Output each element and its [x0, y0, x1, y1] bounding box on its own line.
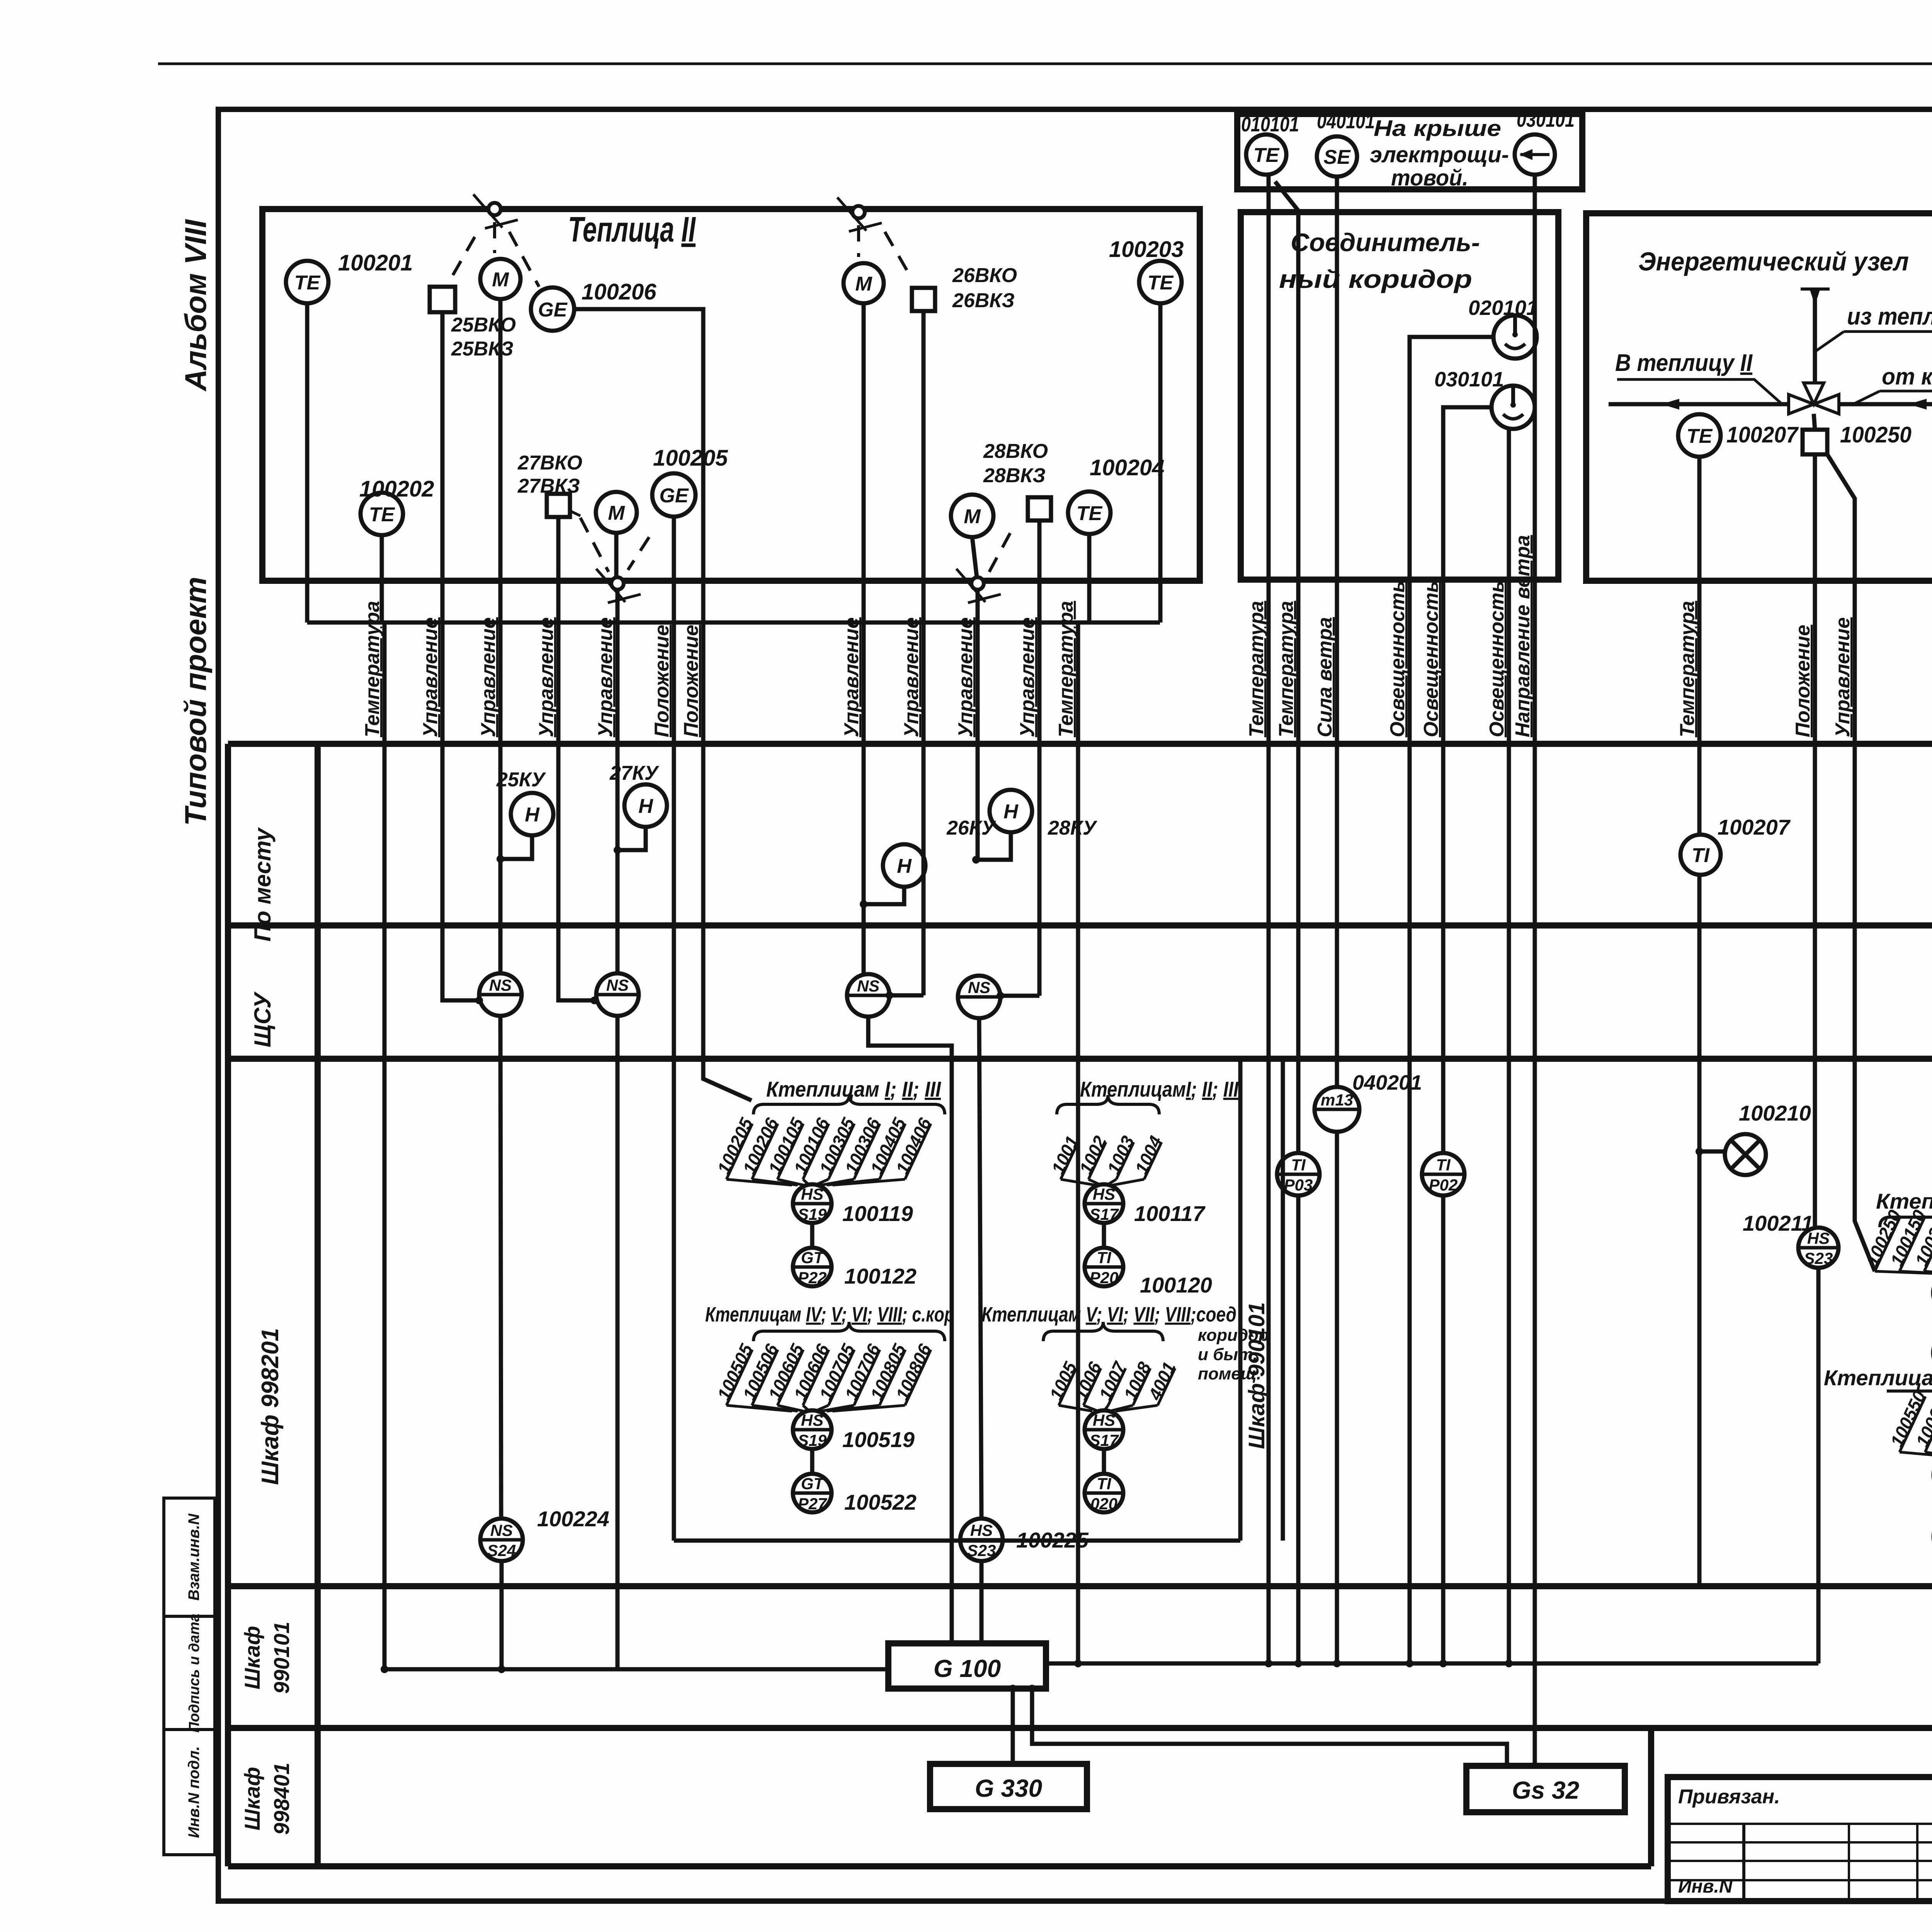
- svg-text:26КУ: 26КУ: [946, 817, 997, 839]
- svg-text:S24: S24: [487, 1541, 516, 1560]
- svg-text:Температура: Температура: [1676, 601, 1699, 737]
- svg-text:TE: TE: [294, 272, 321, 294]
- dash node to square26: [885, 232, 912, 279]
- svg-text:010101: 010101: [1241, 113, 1299, 136]
- svg-text:25КУ: 25КУ: [496, 769, 546, 791]
- svg-text:TI: TI: [1097, 1475, 1112, 1493]
- right collector from G100: [1046, 1662, 1818, 1666]
- svg-text:Соединитель-: Соединитель-: [1291, 228, 1480, 257]
- svg-text:Ктеплицам IV; V; VI; VIII; с.: Ктеплицам IV; V; VI; VIII; с.кор: [705, 1303, 954, 1326]
- wire TE100203 down: [1158, 303, 1163, 622]
- wire c5 upper: [616, 590, 620, 973]
- instrument HS S17 100517: [1085, 1410, 1123, 1449]
- svg-text:GT: GT: [801, 1475, 825, 1493]
- svg-text:Сила ветра: Сила ветра: [1314, 617, 1336, 737]
- svg-text:Освещенность: Освещенность: [1486, 581, 1508, 737]
- svg-text:Альбом VIII: Альбом VIII: [179, 219, 213, 392]
- box Привязан: [1668, 1777, 1932, 1901]
- svg-text:Теплица II: Теплица II: [568, 210, 696, 249]
- instrument TI P02: [1422, 1153, 1464, 1196]
- instrument TI 020: [1085, 1474, 1123, 1513]
- G100 to Gs32: [1032, 1689, 1507, 1766]
- svg-text:TE: TE: [1253, 144, 1280, 167]
- table left edge: [225, 744, 231, 1866]
- svg-text:030101: 030101: [1517, 108, 1575, 131]
- svg-text:998401: 998401: [269, 1763, 294, 1835]
- svg-text:коридор: коридор: [1198, 1326, 1269, 1345]
- svg-text:GE: GE: [538, 299, 567, 321]
- svg-text:Gs 32: Gs 32: [1512, 1776, 1579, 1804]
- svg-text:HS: HS: [1093, 1411, 1115, 1429]
- wire TE100204 down: [1087, 534, 1092, 622]
- svg-text:Положение: Положение: [651, 625, 673, 737]
- wire c20 lower: [1697, 875, 1702, 1586]
- NS3 out to G100: [868, 1017, 952, 1643]
- svg-text:030101: 030101: [1434, 368, 1504, 391]
- svg-text:NS: NS: [606, 976, 629, 994]
- instrument wind direction 030101: [1515, 134, 1555, 175]
- svg-text:G 100: G 100: [934, 1655, 1001, 1682]
- svg-text:25ВКЗ: 25ВКЗ: [451, 338, 514, 360]
- margin stamp table: [164, 1498, 215, 1855]
- fan to HS S17: [1048, 1133, 1166, 1185]
- svg-text:TI: TI: [1291, 1156, 1306, 1174]
- instrument TE 010101: [1246, 134, 1286, 175]
- brace right fan1: [1880, 1208, 1932, 1227]
- pipe top bar: [1801, 287, 1830, 291]
- left collector to G100: [384, 1667, 888, 1672]
- svg-text:040201: 040201: [1352, 1071, 1422, 1094]
- positioner square 100250: [1803, 430, 1827, 454]
- device box Gs32: [1466, 1766, 1625, 1812]
- wire c18 Освещенность: [1507, 429, 1511, 1663]
- svg-text:100204: 100204: [1090, 455, 1165, 480]
- handswitch H 28КУ: [990, 790, 1032, 832]
- device box G330: [930, 1764, 1087, 1809]
- svg-text:28ВКЗ: 28ВКЗ: [983, 464, 1046, 487]
- light sensor 020101: [1493, 315, 1537, 359]
- svg-text:Управление: Управление: [900, 617, 923, 737]
- square drive 27ВКО/27ВКЗ: [547, 494, 570, 517]
- svg-text:TI: TI: [1436, 1156, 1451, 1174]
- motor M row2 left: [596, 492, 637, 533]
- handswitch H 26КУ: [883, 844, 925, 887]
- svg-text:26ВКО: 26ВКО: [952, 264, 1017, 287]
- svg-text:Положение: Положение: [1792, 625, 1814, 737]
- wire c13 Температура: [1267, 175, 1271, 1663]
- svg-text:S23: S23: [967, 1541, 996, 1560]
- svg-text:В теплицу II: В теплицу II: [1615, 350, 1753, 376]
- box Энергетический узел: [1586, 213, 1932, 581]
- svg-text:М: М: [492, 269, 509, 291]
- svg-text:Управление: Управление: [1832, 617, 1854, 737]
- svg-text:Шкаф: Шкаф: [240, 1767, 264, 1831]
- lamp 100210: [1725, 1134, 1766, 1175]
- svg-text:Н: Н: [897, 855, 912, 878]
- wire c9 upper: [922, 311, 926, 995]
- svg-text:NS: NS: [489, 976, 512, 994]
- svg-text:G 330: G 330: [975, 1774, 1042, 1802]
- svg-text:Р02: Р02: [1429, 1176, 1458, 1194]
- H25 lead: [500, 835, 532, 859]
- svg-text:Шкаф: Шкаф: [240, 1626, 264, 1690]
- svg-text:020101: 020101: [1468, 296, 1538, 320]
- box Теплица II: [262, 209, 1200, 581]
- wire c21 lower: [1816, 1268, 1821, 1663]
- instrument HS S19 100119: [793, 1184, 832, 1223]
- wire c20 upper: [1697, 457, 1702, 833]
- svg-text:100207: 100207: [1718, 815, 1791, 839]
- row line ЩСУ / Шкаф 998201: [228, 1056, 1932, 1062]
- svg-text:Энергетический узел: Энергетический узел: [1638, 247, 1909, 276]
- svg-text:Типовой проект: Типовой проект: [179, 577, 213, 826]
- svg-text:Взам.инв.N: Взам.инв.N: [185, 1513, 202, 1600]
- instrument HS S17 100117: [1085, 1184, 1123, 1223]
- svg-text:Р27: Р27: [798, 1495, 827, 1513]
- svg-text:TE: TE: [369, 503, 395, 526]
- switch HS S23 100211: [1798, 1228, 1838, 1268]
- svg-text:Р03: Р03: [1284, 1176, 1313, 1194]
- wire c17 lower: [1441, 1196, 1446, 1663]
- svg-text:М: М: [855, 273, 872, 295]
- enclosure left edge / c6 lower: [672, 1063, 676, 1541]
- svg-text:По месту: По месту: [250, 827, 276, 942]
- switch NS #1: [479, 973, 522, 1016]
- wire M4 to node4: [972, 537, 977, 577]
- handswitch H 25КУ: [511, 793, 553, 835]
- instrument GT P27 100522: [793, 1474, 832, 1513]
- wire c14 lower: [1296, 1196, 1301, 1663]
- wire TE100202 down: [380, 535, 384, 622]
- svg-text:TE: TE: [1148, 272, 1174, 294]
- instrument TE 100204: [1068, 492, 1111, 534]
- table bottom line: [228, 1863, 1651, 1869]
- handswitch H 27КУ: [624, 784, 667, 827]
- dash GE100205 to node2: [628, 537, 649, 570]
- svg-text:Н: Н: [1003, 801, 1019, 823]
- wire c4 to NS: [558, 517, 594, 1000]
- dash node to GE100206: [509, 232, 539, 287]
- square drive 26ВКО/26ВКЗ: [912, 288, 935, 311]
- wire c19 Направление ветра: [1533, 175, 1537, 1766]
- square drive 25ВКО/25ВКЗ: [430, 287, 455, 312]
- svg-text:HS: HS: [970, 1521, 993, 1539]
- svg-text:TE: TE: [1687, 425, 1713, 447]
- svg-text:Температура: Температура: [1245, 601, 1268, 737]
- svg-text:SE: SE: [1323, 146, 1351, 168]
- svg-text:NS: NS: [857, 977, 879, 995]
- svg-text:100250: 100250: [1840, 422, 1912, 447]
- svg-text:GE: GE: [659, 485, 689, 507]
- wire c14 upper to TI P03: [1275, 182, 1298, 1153]
- pipe to теплица II: [1609, 402, 1789, 406]
- pipe from collector: [1839, 402, 1932, 406]
- svg-text:Н: Н: [525, 804, 540, 826]
- wire c8 upper: [862, 303, 866, 974]
- svg-text:Ктеплицам I; II; III: Ктеплицам I; II; III: [766, 1077, 941, 1101]
- row label divider: [315, 744, 321, 1866]
- wire c2 lower: [442, 744, 479, 1000]
- svg-text:HS: HS: [1807, 1229, 1830, 1247]
- c9 into NS3: [889, 993, 923, 998]
- instrument TE 100202: [361, 493, 403, 535]
- junction dots: [497, 855, 504, 863]
- dash square28 to node4: [989, 526, 1014, 572]
- lamp100210 stub: [1699, 1150, 1725, 1154]
- box Соединительный коридор: [1241, 212, 1558, 580]
- wire c5 lower: [616, 1016, 620, 1669]
- svg-text:Шкаф 998201: Шкаф 998201: [257, 1328, 284, 1485]
- svg-text:100207: 100207: [1726, 422, 1799, 447]
- mech node row1 left: [473, 194, 518, 228]
- svg-text:TE: TE: [1077, 502, 1103, 525]
- wire c12 Температура: [1076, 622, 1080, 1663]
- table bottom right closure: [1648, 1727, 1654, 1866]
- svg-text:от коллектора: от коллектора: [1882, 364, 1932, 389]
- svg-text:Освещенность: Освещенность: [1386, 581, 1409, 737]
- instrument GE 100205: [652, 473, 696, 517]
- collection line under box: [307, 621, 1160, 625]
- svg-text:S17: S17: [1090, 1205, 1119, 1223]
- HS S23 to G100: [980, 1561, 984, 1643]
- svg-text:HS: HS: [1093, 1185, 1115, 1203]
- svg-text:Управление: Управление: [535, 617, 558, 737]
- svg-text:электрощи-: электрощи-: [1370, 142, 1509, 167]
- svg-text:100201: 100201: [338, 250, 413, 276]
- switch HS S23 100225: [960, 1519, 1003, 1561]
- wire c15 lower: [1335, 1132, 1339, 1663]
- wire c22 Управление: [1827, 454, 1875, 1271]
- svg-text:М: М: [608, 502, 625, 524]
- svg-text:Управление: Управление: [594, 617, 617, 737]
- svg-text:Направление ветра: Направление ветра: [1512, 535, 1534, 737]
- wire c3 mid: [500, 1016, 501, 1519]
- svg-text:На крыше: На крыше: [1374, 116, 1501, 141]
- svg-text:100205: 100205: [653, 446, 728, 471]
- wire c1 Температура: [383, 622, 387, 1669]
- dash square27 to node2: [580, 518, 609, 572]
- switch NS #2: [596, 973, 639, 1016]
- svg-text:Ктеплицам V; VI; VII; VIII;со: Ктеплицам V; VI; VII; VIII;соед: [981, 1303, 1236, 1326]
- svg-text:100522: 100522: [844, 1490, 917, 1514]
- instrument GE 100206: [531, 287, 574, 331]
- wire c2 Управление top: [440, 312, 445, 744]
- svg-text:и быт.: и быт.: [1198, 1345, 1258, 1364]
- wire c16 Освещенность: [1410, 337, 1493, 1663]
- pipe from теплица II: [1813, 289, 1817, 383]
- instrument m13 040201: [1315, 1087, 1359, 1132]
- svg-text:100211: 100211: [1743, 1211, 1813, 1235]
- H28 lead: [978, 832, 1011, 860]
- svg-text:100122: 100122: [844, 1264, 917, 1288]
- svg-text:ный коридор: ный коридор: [1279, 265, 1472, 293]
- HS to GT link: [810, 1223, 815, 1248]
- svg-text:Освещенность: Освещенность: [1420, 581, 1442, 737]
- svg-text:S17: S17: [1090, 1431, 1119, 1449]
- H26 lead: [864, 887, 904, 904]
- svg-text:Положение: Положение: [680, 625, 702, 737]
- svg-text:28КУ: 28КУ: [1048, 817, 1098, 839]
- svg-text:27КУ: 27КУ: [609, 762, 660, 784]
- dash square25 to node: [453, 228, 480, 275]
- svg-text:27ВКЗ: 27ВКЗ: [517, 475, 580, 497]
- dash node to M3: [857, 225, 860, 257]
- svg-text:ЩСУ: ЩСУ: [250, 991, 276, 1047]
- svg-text:040101: 040101: [1317, 110, 1375, 133]
- svg-text:100117: 100117: [1134, 1201, 1206, 1226]
- fan to HS S19: [713, 1114, 935, 1185]
- svg-text:Температура: Температура: [1275, 601, 1298, 737]
- enclosure bottom: [674, 1539, 1240, 1543]
- instrument TE 100201: [286, 261, 328, 303]
- svg-text:100224: 100224: [537, 1507, 609, 1531]
- wire c11 upper: [1037, 520, 1042, 996]
- svg-text:m13: m13: [1321, 1091, 1353, 1109]
- wire c6 Положение upper: [672, 517, 676, 1063]
- wire c17 upper to TI P02: [1443, 407, 1492, 1153]
- svg-text:100119: 100119: [842, 1201, 913, 1226]
- svg-text:100202: 100202: [359, 476, 434, 502]
- device box G100: [888, 1643, 1046, 1689]
- svg-text:TI: TI: [1097, 1248, 1112, 1267]
- svg-text:28ВКО: 28ВКО: [983, 440, 1048, 463]
- thin top border: [158, 63, 1932, 65]
- svg-text:Температура: Температура: [361, 601, 384, 737]
- wire c3 upper: [498, 299, 503, 973]
- svg-text:Р20: Р20: [1090, 1269, 1119, 1287]
- svg-text:26ВКЗ: 26ВКЗ: [952, 289, 1015, 312]
- brace fan4: [1043, 1322, 1163, 1341]
- mech node row2 right: [956, 569, 1001, 603]
- motor M row2 right: [951, 495, 993, 537]
- wire c15 Сила ветра upper: [1335, 177, 1339, 1087]
- svg-text:100210: 100210: [1739, 1101, 1811, 1125]
- svg-text:Управление: Управление: [840, 617, 863, 737]
- svg-text:990101: 990101: [269, 1622, 294, 1694]
- brace fan2: [753, 1322, 945, 1341]
- svg-text:GT: GT: [801, 1248, 825, 1267]
- instrument TE 100207: [1678, 414, 1721, 457]
- dash node to M1: [493, 222, 496, 253]
- svg-text:100519: 100519: [842, 1427, 915, 1452]
- mech node row1 right: [837, 197, 882, 231]
- box На крыше электрощитовой: [1237, 114, 1582, 189]
- three-way valve: [1789, 383, 1839, 414]
- instrument HS S19 100519: [793, 1410, 832, 1449]
- switch NS S24 100224: [480, 1519, 523, 1561]
- wire M2 to node2: [614, 533, 619, 577]
- table top line: [228, 741, 1932, 747]
- svg-text:NS: NS: [490, 1521, 513, 1539]
- svg-text:Управление: Управление: [954, 617, 977, 737]
- svg-text:S19: S19: [798, 1431, 827, 1449]
- svg-text:100203: 100203: [1109, 237, 1184, 262]
- light sensor 030101: [1492, 386, 1535, 429]
- fan to HS S18 #2: [1886, 1388, 1932, 1456]
- svg-text:27ВКО: 27ВКО: [517, 452, 582, 474]
- switch NS #4: [958, 976, 1000, 1018]
- svg-text:100206: 100206: [582, 279, 656, 304]
- svg-text:S19: S19: [798, 1205, 827, 1223]
- svg-text:100120: 100120: [1140, 1273, 1212, 1297]
- svg-text:Ктеплицам: Ктеплицам: [1824, 1366, 1932, 1390]
- svg-text:М: М: [964, 505, 981, 528]
- instrument TI P20: [1085, 1248, 1123, 1287]
- H27 lead: [617, 827, 646, 850]
- c11 into NS4: [1000, 994, 1039, 998]
- svg-text:Инв.N подл.: Инв.N подл.: [185, 1746, 202, 1838]
- svg-text:помещ.: помещ.: [1198, 1364, 1261, 1383]
- wire c10 upper: [976, 590, 980, 860]
- svg-text:Управление: Управление: [419, 617, 442, 737]
- svg-text:Ктеплицам I;II;III.: Ктеплицам I;II;III.: [1876, 1189, 1932, 1213]
- brace fan1: [753, 1095, 945, 1114]
- motor M row1 right: [844, 263, 884, 303]
- svg-text:из теплицы II: из теплицы II: [1847, 303, 1932, 330]
- svg-text:товой.: товой.: [1391, 165, 1468, 190]
- instrument GT P22 100122: [793, 1248, 832, 1287]
- row line Шкаф 990101 / Шкаф 998401: [228, 1725, 1932, 1731]
- enclosure right edge: [1238, 1059, 1243, 1541]
- svg-text:Р22: Р22: [798, 1269, 827, 1287]
- strip line Шкаф 990101: [1281, 1059, 1285, 1541]
- G100 to G330: [1011, 1689, 1015, 1764]
- NS S24 lower lead: [500, 1561, 504, 1669]
- instrument TI 100207 по месту: [1680, 835, 1721, 875]
- svg-text:HS: HS: [801, 1411, 823, 1429]
- switch NS #3: [847, 974, 889, 1017]
- svg-text:100225: 100225: [1016, 1528, 1089, 1552]
- fan to HS S17 #2: [1046, 1358, 1179, 1411]
- instrument TE 100203: [1139, 261, 1182, 303]
- wire c21 Положение upper: [1813, 454, 1817, 1226]
- instrument TI P03: [1277, 1153, 1320, 1196]
- svg-text:Привязан.: Привязан.: [1678, 1786, 1780, 1808]
- svg-text:Н: Н: [638, 795, 653, 818]
- row line По месту / ЩСУ: [228, 922, 1932, 929]
- fan to HS S19 #2: [713, 1340, 935, 1411]
- wire c10 lower: [979, 1018, 981, 1519]
- instrument SE 040101: [1317, 136, 1357, 177]
- mech node row2 left: [596, 569, 641, 603]
- svg-text:25ВКО: 25ВКО: [451, 314, 516, 336]
- svg-text:Подпись и дата: Подпись и дата: [186, 1614, 202, 1733]
- wire TE100201 down: [305, 303, 310, 622]
- svg-text:S23: S23: [1804, 1249, 1833, 1267]
- svg-text:КтеплицамI; II; III: КтеплицамI; II; III: [1080, 1077, 1239, 1101]
- motor M row1 left: [480, 259, 520, 299]
- wire c7 Положение from GE100206: [574, 309, 752, 1100]
- valve to square stem: [1814, 414, 1815, 430]
- svg-text:Управление: Управление: [477, 617, 500, 737]
- svg-text:020: 020: [1090, 1495, 1117, 1513]
- svg-text:TI: TI: [1692, 844, 1710, 867]
- svg-text:Управление: Управление: [1016, 617, 1039, 737]
- svg-text:NS: NS: [968, 978, 990, 997]
- brace fan3: [1057, 1095, 1159, 1114]
- svg-text:Инв.N: Инв.N: [1678, 1876, 1733, 1897]
- square drive 28ВКО/28ВКЗ: [1028, 497, 1051, 520]
- svg-text:HS: HS: [801, 1185, 823, 1203]
- svg-text:Температура: Температура: [1055, 601, 1077, 737]
- row line Шкаф 998201 / Шкаф 990101: [228, 1583, 1932, 1589]
- fan to HS S18: [1862, 1207, 1932, 1274]
